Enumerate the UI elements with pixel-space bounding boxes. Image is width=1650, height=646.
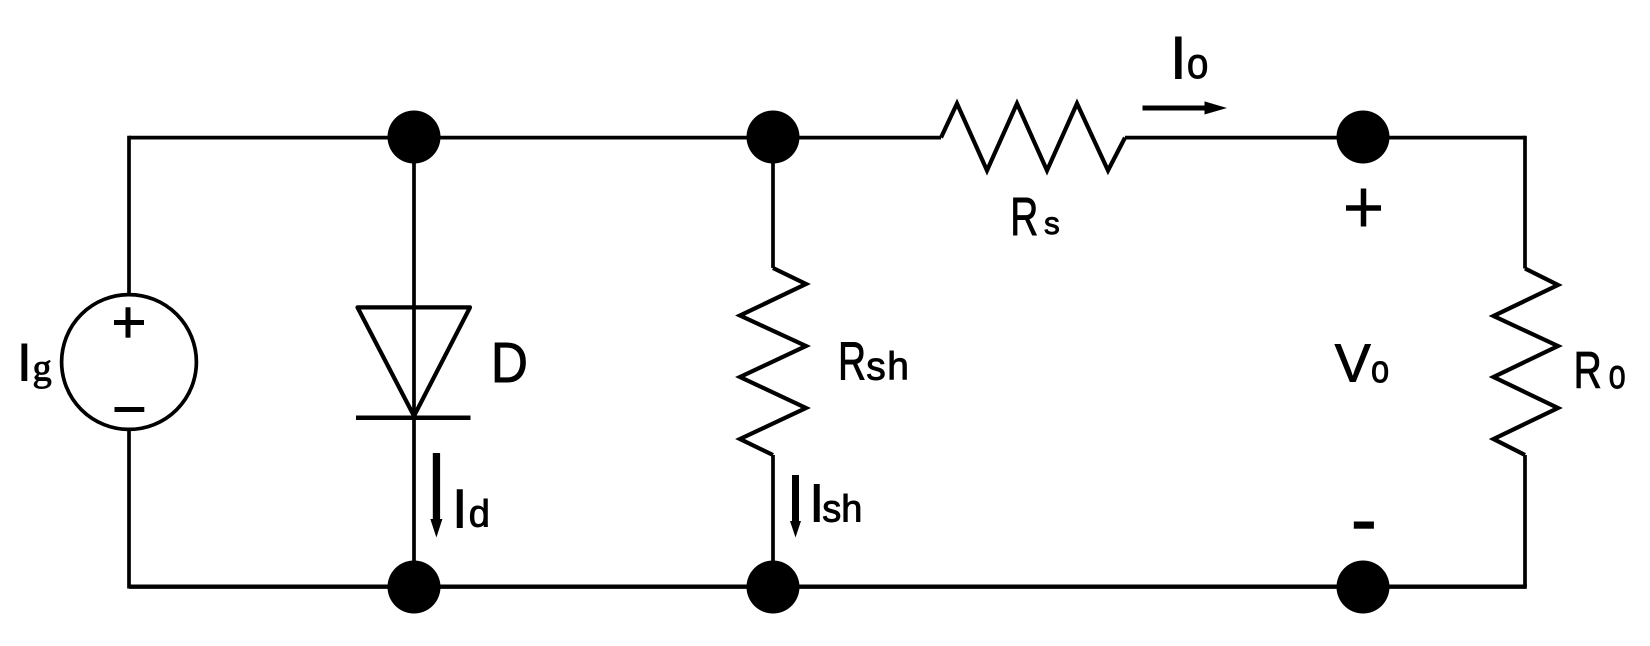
wire Rsh branch upper [771,138,775,268]
diode D triangle [358,307,471,416]
svg-text:s: s [1044,205,1060,241]
svg-text:sh: sh [866,345,910,388]
wire top rail right (Rs to corner) [1125,136,1525,140]
node bottom-2 [747,561,800,614]
output minus sign [1354,522,1374,529]
svg-text:D: D [491,331,528,394]
svg-text:o: o [1609,350,1626,396]
svg-text:o: o [1371,347,1389,390]
resistor Ro [1494,269,1559,456]
node bottom-1 [388,561,441,614]
arrow Ish [790,475,801,538]
svg-text:R: R [1574,340,1602,399]
svg-text:V: V [1335,333,1371,393]
node bottom-3 [1337,561,1390,614]
svg-text:g: g [33,348,52,390]
resistor Rs [941,104,1125,171]
resistor Rsh [740,268,806,455]
svg-text:I: I [17,334,32,393]
wire left branch upper [127,136,131,295]
wire top rail left (node1 to Rs) [129,136,941,140]
node top-1 [388,111,441,164]
svg-text:R: R [838,330,866,391]
arrow Id [430,453,442,538]
wire diode branch [412,138,416,587]
svg-text:I: I [452,477,467,539]
svg-text:o: o [1187,39,1209,87]
wire Rsh branch lower [771,455,775,587]
node top-2 [747,111,800,164]
node top-3 [1337,111,1390,164]
current source Ig circle [62,295,197,430]
wire right branch upper [1523,136,1527,269]
svg-text:sh: sh [822,489,862,531]
source minus sign [115,407,145,412]
svg-text:R: R [1010,186,1038,247]
output plus sign [1346,189,1381,227]
arrow Io [1143,101,1228,114]
svg-text:d: d [469,493,490,535]
diode D cathode bar [356,415,471,420]
wire bottom rail [129,585,1527,589]
wire right branch lower [1523,455,1527,587]
wire left branch lower [127,429,131,589]
source plus sign [114,307,144,337]
svg-text:I: I [1170,24,1187,91]
